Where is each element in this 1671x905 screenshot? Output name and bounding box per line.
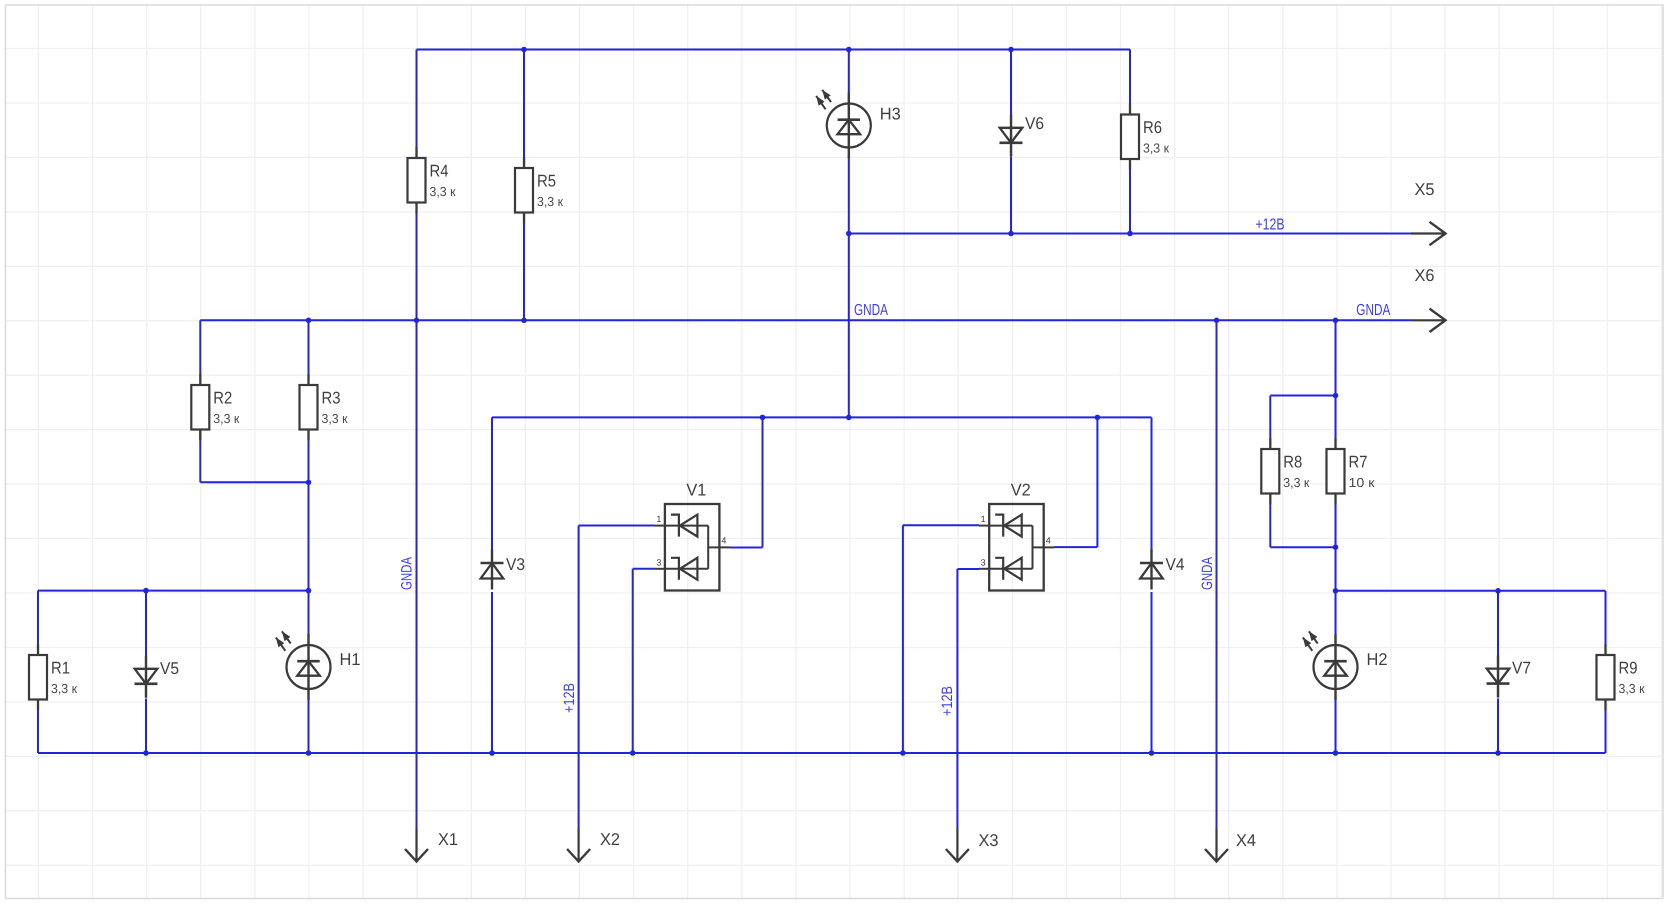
svg-text:R6: R6 <box>1143 118 1162 137</box>
junction top/V6 <box>1008 47 1014 53</box>
diode V5 <box>135 656 180 698</box>
junction rail/V4 <box>1149 750 1155 756</box>
wire V1 pin4 riser <box>762 417 764 547</box>
wire H3 column lower <box>848 158 850 417</box>
wire V1 pin3 feed vertical <box>632 569 634 753</box>
diode V4 <box>1140 549 1185 590</box>
resistor R2 <box>191 374 239 441</box>
svg-text:1: 1 <box>656 514 661 524</box>
wire V4 bottom <box>1151 592 1153 753</box>
svg-text:X5: X5 <box>1415 180 1435 199</box>
wire V2 pin1 horizontal <box>903 524 979 526</box>
wire left LED row <box>38 590 309 592</box>
svg-text:H2: H2 <box>1367 650 1388 669</box>
wire V6 column upper <box>1010 50 1012 117</box>
junction top/R5 <box>521 47 527 53</box>
wire V5 bottom <box>145 699 147 754</box>
svg-text:H1: H1 <box>340 650 361 669</box>
wire V2 pin4 horizontal <box>1054 546 1097 548</box>
wire +12B rail <box>849 233 1411 235</box>
svg-text:1: 1 <box>981 514 986 524</box>
wire V3 top <box>491 417 493 549</box>
junction pin4 net/V2 riser <box>1095 415 1101 421</box>
svg-text:+12B: +12B <box>939 686 956 716</box>
connector X5 arrow <box>1411 222 1446 245</box>
wire R7 upper lead <box>1335 396 1337 439</box>
wire R7 column top <box>1335 320 1337 395</box>
wire R3 bottom to LED row <box>308 430 310 591</box>
svg-text:X6: X6 <box>1415 266 1435 285</box>
wire R1 bottom <box>37 711 39 754</box>
svg-text:3,3 к: 3,3 к <box>430 184 456 199</box>
diode V7 <box>1487 656 1532 698</box>
wire X2 column (+12B) <box>578 526 580 829</box>
junction rail/V3 <box>489 750 495 756</box>
junction rail/V2 pin1 feed <box>900 750 906 756</box>
connector X2 arrow <box>567 829 590 862</box>
svg-text:3: 3 <box>656 557 661 567</box>
wire H2 top <box>1335 591 1337 634</box>
wire right LED row <box>1336 590 1606 592</box>
LED H2 <box>1303 631 1388 700</box>
connector X1 arrow <box>405 829 428 862</box>
junction H2 column/right row <box>1333 588 1339 594</box>
wire R5 column upper <box>523 50 525 158</box>
wire R4 column lower <box>416 213 418 321</box>
junction V5/left row <box>143 588 149 594</box>
svg-text:R2: R2 <box>213 389 232 408</box>
resistor R9 <box>1597 644 1645 711</box>
junction H1 column/left row <box>306 588 312 594</box>
wire R9 bottom <box>1605 711 1607 754</box>
wire X1 column <box>416 320 418 828</box>
wire bottom rail <box>38 752 1606 754</box>
svg-text:R9: R9 <box>1619 659 1638 678</box>
wire R6 column upper <box>1129 50 1131 104</box>
svg-text:X1: X1 <box>438 830 458 849</box>
svg-text:3,3 к: 3,3 к <box>537 194 563 209</box>
svg-text:X2: X2 <box>600 830 620 849</box>
wire R8 top jog <box>1270 395 1335 397</box>
svg-text:3,3 к: 3,3 к <box>1283 475 1309 490</box>
svg-text:3,3 к: 3,3 к <box>322 411 348 426</box>
wire X3 column (+12B) <box>956 569 958 829</box>
svg-text:V4: V4 <box>1166 555 1185 574</box>
svg-text:GNDA: GNDA <box>854 302 888 319</box>
wire R4 column upper <box>416 50 418 148</box>
wire V6 column lower <box>1010 157 1012 234</box>
svg-text:H3: H3 <box>880 105 901 124</box>
wire R1 top <box>37 591 39 645</box>
resistor R7 <box>1327 438 1375 505</box>
svg-text:GNDA: GNDA <box>1356 302 1390 319</box>
junction +12B/V6 <box>1008 231 1014 237</box>
svg-text:+12B: +12B <box>561 683 578 713</box>
wire R7 to LED row <box>1335 505 1337 591</box>
svg-text:V7: V7 <box>1512 659 1531 678</box>
wire pin4 net horizontal <box>492 416 1152 418</box>
svg-text:V6: V6 <box>1025 114 1044 133</box>
wire H2 bottom <box>1335 700 1337 753</box>
junction rail/V1 pin3 feed <box>630 750 636 756</box>
svg-text:3,3 к: 3,3 к <box>1143 141 1169 156</box>
wire V1 pin1 horizontal <box>579 525 655 527</box>
junction rail/H1 <box>306 750 312 756</box>
junction R7/R8 top <box>1333 393 1339 399</box>
wire R2 top <box>199 320 201 374</box>
junction rail/H2 <box>1333 750 1339 756</box>
svg-text:V3: V3 <box>506 555 525 574</box>
wire GNDA rail <box>200 319 1411 321</box>
svg-text:R1: R1 <box>51 659 70 678</box>
svg-text:R3: R3 <box>322 389 341 408</box>
svg-text:X4: X4 <box>1236 831 1256 850</box>
svg-text:V2: V2 <box>1011 481 1031 500</box>
resistor R5 <box>515 157 563 224</box>
diode V6 <box>1000 114 1045 157</box>
connector X6 arrow <box>1411 309 1446 332</box>
wire V1 pin3 horizontal <box>633 568 655 570</box>
junction pin4 net/H3 column <box>846 415 852 421</box>
svg-text:V1: V1 <box>686 481 706 500</box>
wire R8 bottom jog <box>1270 546 1335 548</box>
svg-text:X3: X3 <box>979 831 999 850</box>
junction GNDA/R5 <box>521 318 527 324</box>
junction pin4 net/V1 riser <box>760 415 766 421</box>
resistor R8 <box>1261 438 1309 505</box>
wire V5 top <box>145 591 147 656</box>
resistor R6 <box>1121 104 1169 171</box>
svg-text:+12B: +12B <box>1256 217 1285 234</box>
wire X4 column <box>1216 320 1218 828</box>
wire R2 bottom <box>199 430 201 483</box>
wire V7 top <box>1497 591 1499 656</box>
svg-text:3: 3 <box>981 557 986 567</box>
svg-text:R4: R4 <box>430 162 449 181</box>
connector X4 arrow <box>1205 829 1228 862</box>
wire V3 bottom <box>491 592 493 753</box>
svg-text:3,3 к: 3,3 к <box>1619 681 1645 696</box>
wire V2 pin4 riser <box>1096 417 1098 547</box>
LED H1 <box>276 631 361 700</box>
junction GNDA/R4-X1 <box>414 318 420 324</box>
wire R3 top <box>308 320 310 374</box>
junction rail/V5 <box>143 750 149 756</box>
wire V7 bottom <box>1497 699 1499 754</box>
svg-text:10 к: 10 к <box>1349 475 1375 490</box>
LED H3 <box>816 90 901 159</box>
junction top/H3 <box>846 47 852 53</box>
svg-text:R8: R8 <box>1283 453 1302 472</box>
wire V1 pin4 horizontal <box>730 547 763 549</box>
connector X3 arrow <box>946 829 969 862</box>
wire V2 pin3 horizontal <box>957 568 979 570</box>
wire R2-R3 jog <box>200 481 308 483</box>
dual diode V1 <box>655 481 730 591</box>
svg-text:3,3 к: 3,3 к <box>213 411 239 426</box>
svg-text:3,3 к: 3,3 к <box>51 681 77 696</box>
wire V4 top <box>1151 417 1153 549</box>
wire top rail <box>417 49 1131 51</box>
dual diode V2 <box>979 481 1054 591</box>
svg-text:R7: R7 <box>1349 453 1368 472</box>
junction rail/V7 <box>1495 750 1501 756</box>
svg-text:GNDA: GNDA <box>1199 557 1216 590</box>
svg-text:4: 4 <box>721 536 726 546</box>
wire R6 column lower <box>1129 170 1131 234</box>
resistor R1 <box>29 644 77 711</box>
junction R3 column/jog <box>306 480 312 486</box>
wire R8 top lead <box>1269 396 1271 439</box>
junction GNDA/R7 <box>1333 318 1339 324</box>
junction V7/right row <box>1495 588 1501 594</box>
wire R5 column lower <box>523 223 525 320</box>
resistor R4 <box>408 147 456 214</box>
junction GNDA/R3 <box>306 318 312 324</box>
resistor R3 <box>300 374 348 441</box>
wire R8 bottom lead <box>1269 505 1271 548</box>
svg-text:GNDA: GNDA <box>399 557 416 590</box>
wire H3 column upper <box>848 50 850 94</box>
svg-text:R5: R5 <box>537 172 556 191</box>
wire V2 pin1 feed vertical <box>902 525 904 753</box>
junction R7/R8 bottom <box>1333 544 1339 550</box>
diode V3 <box>481 549 526 590</box>
svg-text:4: 4 <box>1046 536 1051 546</box>
junction +12B/R6 <box>1127 231 1133 237</box>
svg-text:V5: V5 <box>160 659 179 678</box>
junction GNDA/X4 <box>1214 318 1220 324</box>
wire H1 top <box>308 591 310 634</box>
wire R9 top <box>1605 591 1607 645</box>
wire H1 bottom <box>308 700 310 753</box>
junction +12B/H3 <box>846 231 852 237</box>
